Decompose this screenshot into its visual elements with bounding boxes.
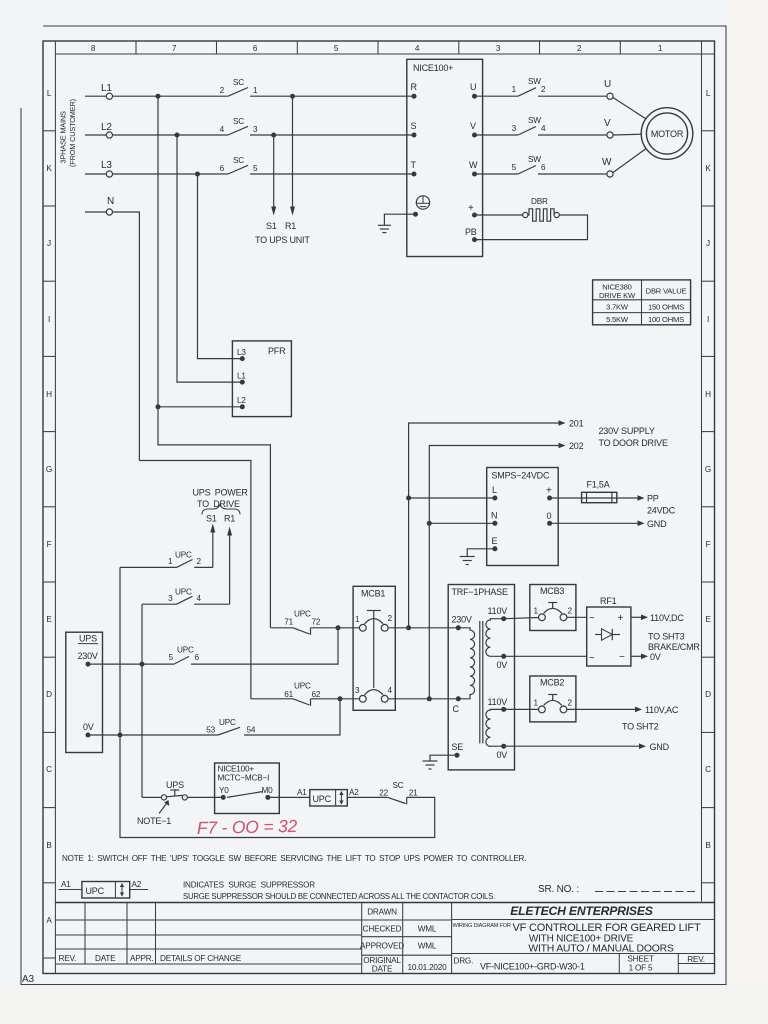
svg-text:RF1: RF1 (600, 596, 617, 606)
junction SMPS L (406, 496, 411, 501)
breaker MCB2 (530, 676, 576, 722)
junction L2-S1 drop (271, 133, 276, 138)
wire R1 drop to UPS unit (292, 96, 294, 208)
svg-text:+: + (618, 613, 624, 624)
svg-text:~: ~ (589, 653, 595, 664)
svg-text:5: 5 (253, 164, 258, 173)
svg-text:5.5KW: 5.5KW (606, 315, 629, 324)
svg-text:UPC: UPC (294, 682, 311, 691)
svg-text:D: D (705, 690, 711, 699)
wire 201 door drive supply (409, 423, 559, 498)
contact Y0-M0 (227, 792, 263, 798)
svg-text:A: A (46, 916, 52, 925)
svg-text:D: D (46, 690, 52, 699)
terminal L3 (106, 171, 112, 177)
wire L3 to contact SC5 (113, 173, 229, 175)
wire L3 drop to PFR L3 (198, 174, 243, 359)
svg-text:SC: SC (233, 117, 244, 126)
wire UPC3 drop to toggle (141, 604, 143, 797)
wire L3 stub (85, 173, 106, 175)
svg-text:4: 4 (415, 44, 420, 53)
svg-text:6: 6 (195, 653, 200, 662)
wire SE to ground (430, 755, 457, 761)
svg-text:TO SHT2: TO SHT2 (622, 722, 659, 732)
wire 202 door drive supply (429, 446, 558, 524)
wire SC21 return loop to 0V (120, 797, 435, 837)
svg-text:21: 21 (409, 789, 418, 798)
wire RF1 + output (631, 616, 641, 618)
terminal UPS 0V (86, 733, 91, 738)
svg-text:2: 2 (197, 557, 202, 566)
svg-text:54: 54 (247, 726, 256, 735)
wire SMPS 0 to GND (550, 522, 638, 524)
svg-text:230V: 230V (78, 651, 98, 661)
junction to SMPS L (406, 625, 411, 630)
contactor contact SW 5-6 (W) (512, 155, 546, 174)
svg-text:L3: L3 (101, 160, 112, 171)
svg-text:SC: SC (393, 781, 404, 790)
svg-text:U: U (604, 79, 611, 90)
revision table (55, 903, 361, 965)
contactor contact UPC 71-72 (270, 610, 320, 635)
wire W to contact SW5 (475, 173, 519, 175)
svg-text:NOTE 1: SWITCH OFF THE 'U: NOTE 1: SWITCH OFF THE 'UPS' TOGGLE SW B… (62, 854, 526, 863)
svg-text:NICE100+: NICE100+ (413, 63, 453, 73)
svg-text:K: K (46, 164, 52, 173)
contactor contact UPC 3-4 (142, 588, 230, 605)
svg-text:1 OF 5: 1 OF 5 (629, 964, 653, 973)
wire SW2 to motor U (538, 95, 607, 97)
svg-text:L: L (47, 89, 52, 98)
svg-text:R: R (411, 82, 418, 92)
svg-text:1: 1 (534, 699, 539, 708)
svg-text:ELETECH ENTERPRISES: ELETECH ENTERPRISES (510, 904, 653, 918)
svg-text:G: G (46, 465, 52, 474)
junction 230V line (140, 662, 145, 667)
svg-text:110V,DC: 110V,DC (650, 613, 684, 623)
svg-text:1: 1 (512, 85, 517, 94)
svg-text:S1: S1 (206, 514, 217, 524)
svg-text:3: 3 (355, 686, 360, 695)
wire MCB2-2 output (567, 708, 635, 710)
svg-text:L: L (492, 485, 497, 495)
svg-text:UPC: UPC (219, 718, 236, 727)
svg-text:UPC: UPC (86, 886, 105, 896)
wire + to DBR (475, 214, 523, 216)
svg-text:C: C (46, 765, 52, 774)
3-phase mains caption (59, 99, 78, 167)
svg-text:H: H (46, 390, 52, 399)
terminal L2 (106, 132, 112, 138)
svg-text:A2: A2 (349, 788, 359, 797)
rectifier RF1 (587, 596, 631, 666)
label 230V supply to door drive (599, 426, 668, 448)
drive unit NICE100+ (407, 59, 483, 256)
svg-text:I: I (48, 315, 50, 324)
svg-text:UPC: UPC (177, 646, 194, 655)
suppressor glyph (340, 792, 342, 805)
svg-text:UPC: UPC (294, 610, 311, 619)
svg-text:L2: L2 (237, 396, 246, 405)
svg-text:0V: 0V (497, 750, 508, 760)
svg-text:SC: SC (233, 156, 244, 165)
svg-text:71: 71 (284, 618, 293, 627)
svg-text:VF CONTROLLER FOR GEARED LIFT: VF CONTROLLER FOR GEARED LIFT (513, 922, 701, 934)
svg-text:7: 7 (172, 44, 177, 53)
right letter band line (701, 41, 703, 902)
svg-text:~: ~ (589, 613, 595, 624)
title block top edge (55, 902, 714, 904)
arrow NOTE-1 (159, 804, 167, 814)
node N (85, 196, 139, 461)
wire DBR return to PB (475, 215, 588, 240)
junction L1 drop at PFR L2 (156, 404, 161, 409)
wire PFR L2 feed (158, 406, 242, 408)
ground (drive) (378, 225, 391, 232)
wire drive earth to ground (384, 214, 415, 225)
svg-text:22: 22 (379, 789, 388, 798)
svg-text:C: C (453, 704, 460, 714)
wire MCB1-4 riser to SMPS N (428, 523, 430, 699)
svg-text:0V: 0V (497, 660, 508, 670)
wire RF1 - output (631, 655, 641, 657)
wire L1 stub (85, 95, 106, 97)
wire U to contact SW1 (475, 95, 519, 97)
svg-text:4: 4 (220, 125, 225, 134)
svg-text:UPC: UPC (175, 551, 192, 560)
wire L1 drop to PFR and step (158, 96, 270, 627)
svg-text:J: J (706, 239, 710, 248)
DBR value table (593, 280, 691, 325)
svg-text:SE: SE (452, 742, 464, 752)
wire 0V to RF1 (504, 655, 587, 657)
wire UPC6 to MCB1 feed (191, 628, 338, 664)
wire SMPS N feed (429, 522, 495, 524)
svg-text:5: 5 (334, 44, 339, 53)
svg-text:WIRING DIAGRAM FOR: WIRING DIAGRAM FOR (453, 923, 511, 929)
svg-text:WITH AUTO / MANUAL DOORS: WITH AUTO / MANUAL DOORS (528, 943, 674, 954)
wire SC1 to NICE R (250, 95, 414, 97)
svg-text:24VDC: 24VDC (647, 506, 676, 516)
svg-text:H: H (705, 390, 711, 399)
svg-text:+: + (546, 486, 552, 497)
right zone letters (705, 89, 711, 850)
svg-text:MCB3: MCB3 (540, 586, 564, 596)
wire SC3 to NICE S (250, 134, 414, 136)
top zone ticks (136, 41, 620, 54)
node S1 R1 to UPS unit (255, 221, 310, 245)
wire SMPS + to fuse (550, 497, 582, 499)
right zone ticks (702, 131, 715, 883)
protective earth symbol in drive (416, 196, 429, 209)
svg-text:L2: L2 (101, 122, 112, 133)
svg-text:NOTE−1: NOTE−1 (137, 816, 171, 826)
top zone numbers (91, 44, 663, 53)
node PP 24VDC (647, 494, 676, 516)
svg-text:DATE: DATE (95, 954, 116, 963)
ground (TRF SE) (423, 761, 438, 769)
svg-text:U: U (470, 82, 476, 92)
svg-text:L1: L1 (101, 83, 112, 94)
svg-text:2: 2 (541, 85, 546, 94)
svg-text:2: 2 (568, 607, 573, 616)
contactor contact SC 22-21 (379, 781, 418, 804)
svg-text:+: + (468, 203, 474, 214)
label TO SHT3 BRAKE/CMR (648, 632, 700, 653)
wire V to contact SW3 (475, 134, 519, 136)
svg-text:3.7KW: 3.7KW (606, 303, 629, 312)
wire UPC1 drop to 0V rail (119, 567, 121, 838)
svg-text:A2: A2 (132, 880, 142, 889)
svg-text:MCB1: MCB1 (361, 589, 385, 599)
svg-text:TO UPS UNIT: TO UPS UNIT (255, 235, 310, 245)
svg-text:NICE100+: NICE100+ (218, 765, 255, 774)
wire M0 to A1 (268, 796, 310, 798)
svg-text:DRG.: DRG. (454, 957, 474, 966)
svg-text:1: 1 (253, 86, 258, 95)
secondary winding 2 (486, 709, 504, 746)
svg-text:DRAWN: DRAWN (367, 908, 397, 917)
contactor contact UPC 61-62 (251, 682, 321, 706)
motor M1 (641, 108, 693, 160)
svg-text:A3: A3 (22, 974, 34, 985)
svg-text:3: 3 (512, 124, 517, 133)
wire S1 arrow from UPC2 (212, 531, 214, 567)
wire UPS 0V to UPC53 (88, 734, 218, 736)
wire motor U lead (613, 98, 646, 120)
svg-text:1: 1 (658, 44, 663, 53)
svg-text:201: 201 (569, 419, 584, 429)
svg-text:L1: L1 (237, 372, 246, 381)
node L3 (85, 156, 414, 177)
svg-text:WML: WML (418, 942, 437, 951)
wire L2 drop to PFR L1 (177, 135, 242, 382)
label UPS POWER TO DRIVE (193, 488, 249, 510)
svg-text:K: K (705, 164, 711, 173)
svg-text:4: 4 (541, 124, 546, 133)
svg-text:V: V (470, 121, 476, 131)
svg-text:110V,AC: 110V,AC (645, 705, 679, 715)
terminal N (106, 209, 112, 215)
wire UPC62 to MCB1-3 (311, 698, 360, 700)
svg-text:5: 5 (169, 653, 174, 662)
svg-text:4: 4 (197, 594, 202, 603)
svg-text:5: 5 (512, 163, 517, 172)
wire MCB1-2 riser to SMPS L (408, 498, 410, 628)
svg-text:TO SHT3: TO SHT3 (648, 632, 685, 642)
svg-text:MOTOR: MOTOR (651, 129, 684, 139)
svg-text:F: F (47, 540, 52, 549)
wire R1 arrow from UPC4 (229, 534, 231, 604)
svg-text:1: 1 (355, 615, 360, 624)
svg-text:SR. NO. :: SR. NO. : (538, 884, 579, 895)
wire S1 drop to UPS unit (273, 135, 275, 208)
svg-text:VF-NICE100+-GRD-W30-1: VF-NICE100+-GRD-W30-1 (480, 962, 585, 972)
contactor contact SW 3-4 (V) (512, 116, 546, 135)
wire UPS 230V to UPC5 (88, 663, 174, 665)
wire 0V to GND (504, 745, 639, 747)
contactor contact SC 6-5 (220, 156, 258, 174)
wire UPC54 to MCB1-3 feed (244, 699, 340, 735)
svg-text:SHEET: SHEET (627, 955, 653, 964)
svg-text:A1: A1 (61, 880, 71, 889)
svg-text:B: B (46, 841, 52, 850)
svg-text:6: 6 (220, 164, 225, 173)
svg-text:UPC: UPC (175, 588, 192, 597)
wire N step down (139, 461, 251, 699)
svg-text:DBR VALUE: DBR VALUE (646, 287, 687, 296)
junction UPC6/UPC72 (336, 625, 341, 630)
breaker MCB3 (530, 585, 576, 631)
node L1 (85, 78, 414, 99)
svg-text:DBR: DBR (531, 197, 548, 206)
svg-text:2: 2 (220, 86, 225, 95)
svg-text:T: T (411, 160, 417, 170)
svg-text:3: 3 (253, 125, 258, 134)
svg-text:J: J (47, 239, 51, 248)
svg-text:F1,5A: F1,5A (587, 480, 610, 490)
wire MCB1-2 to TRF 230V (388, 627, 458, 629)
surge suppressor UPC (A1-A2) (297, 788, 359, 806)
svg-text:N: N (491, 511, 497, 521)
junction 0V line (118, 733, 123, 738)
junction L3-PFR drop (195, 172, 200, 177)
wire N stub (85, 211, 106, 213)
wire SW4 to motor V (538, 134, 607, 136)
svg-text:110V: 110V (488, 606, 508, 616)
wire L1 to contact SC1 (113, 95, 229, 97)
svg-text:SW: SW (528, 155, 541, 164)
svg-text:0V: 0V (83, 722, 94, 732)
svg-text:(FROM CUSTOMER): (FROM CUSTOMER) (68, 99, 77, 167)
ground (SMPS E) (460, 557, 475, 565)
svg-text:2: 2 (568, 699, 573, 708)
wire motor W lead (613, 148, 646, 172)
contactor contact SC 2-1 (220, 78, 258, 96)
svg-text:C: C (705, 765, 711, 774)
junction L1-PFR drop (156, 94, 161, 99)
wire 110V to MCB3-1 (504, 618, 539, 619)
contactor contact UPC 53-54 (206, 718, 256, 735)
contactor contact UPC 5-6 (169, 646, 200, 665)
svg-text:E: E (46, 615, 52, 624)
svg-text:Y0: Y0 (219, 786, 229, 795)
svg-text:150 OHMS: 150 OHMS (648, 303, 684, 312)
svg-text:S: S (411, 121, 417, 131)
svg-text:TO DOOR DRIVE: TO DOOR DRIVE (599, 438, 668, 448)
svg-text:53: 53 (206, 726, 215, 735)
svg-text:WML: WML (418, 925, 437, 934)
secondary winding 1 (486, 619, 504, 657)
svg-text:0: 0 (547, 511, 552, 521)
svg-text:W: W (469, 160, 478, 170)
svg-text:G: G (705, 465, 711, 474)
approval column (362, 903, 452, 974)
svg-text:SMPS−24VDC: SMPS−24VDC (492, 471, 550, 481)
wire SC5 to NICE T (250, 173, 414, 175)
wire L2 stub (85, 134, 106, 136)
svg-text:3: 3 (168, 594, 173, 603)
title block (55, 903, 714, 974)
svg-text:W: W (602, 157, 612, 168)
MCB1 linkage (373, 611, 375, 689)
svg-text:CHECKED: CHECKED (363, 925, 402, 934)
wire MCB1-4 to TRF C (388, 698, 458, 700)
junction L1-R1 drop (290, 94, 295, 99)
svg-text:SURGE SUPPRESSOR SHOULD BE: SURGE SUPPRESSOR SHOULD BE CONNECTED ACR… (183, 892, 495, 901)
svg-text:APPROVED: APPROVED (360, 942, 404, 951)
wire A2 to SC contact (347, 796, 388, 798)
wire motor V lead (613, 133, 641, 136)
svg-text:L: L (706, 89, 711, 98)
svg-text:PB: PB (465, 227, 477, 237)
wire SMPS E to ground (467, 549, 495, 557)
svg-text:S1: S1 (266, 221, 277, 231)
power supply SMPS-24VDC (487, 468, 559, 566)
wire N to drop (113, 212, 140, 461)
junction to SMPS N (427, 696, 432, 701)
svg-text:UPS POWER: UPS POWER (193, 488, 249, 498)
svg-text:REV.: REV. (687, 955, 705, 964)
svg-text:PFR: PFR (268, 346, 286, 356)
svg-text:APPR.: APPR. (130, 954, 154, 963)
drawing frame (43, 41, 715, 974)
svg-text:GND: GND (647, 519, 667, 529)
svg-text:100 OHMS: 100 OHMS (648, 315, 684, 324)
svg-text:62: 62 (312, 690, 321, 699)
junction L2-PFR drop (175, 133, 180, 138)
svg-text:110V: 110V (488, 697, 508, 707)
svg-text:3: 3 (496, 44, 501, 53)
junction SMPS N (427, 521, 432, 526)
svg-text:DETAILS OF CHANGE: DETAILS OF CHANGE (160, 954, 242, 963)
svg-text:F: F (706, 540, 711, 549)
toggle blade and handle (167, 795, 183, 796)
toggle switch UPS (142, 780, 223, 800)
svg-text:F7 - OO = 32: F7 - OO = 32 (197, 816, 298, 838)
svg-text:0V: 0V (650, 652, 661, 662)
controller NICE100+ MCTC-MCB-I (215, 763, 280, 814)
wire fuse to PP (617, 497, 638, 499)
svg-text:202: 202 (569, 441, 584, 451)
node L2 (85, 117, 414, 138)
wire SMPS L feed (409, 497, 495, 499)
svg-text:TRF−1PHASE: TRF−1PHASE (452, 587, 508, 597)
core (479, 621, 481, 743)
resistor DBR (523, 197, 560, 221)
svg-text:R1: R1 (285, 221, 296, 231)
breaker MCB1 (353, 586, 395, 710)
diode D1 (595, 634, 602, 636)
contactor contact UPC 1-2 (120, 551, 213, 568)
svg-text:DRIVE KW: DRIVE KW (599, 291, 636, 300)
svg-text:MCTC−MCB−I: MCTC−MCB−I (218, 774, 270, 783)
terminal UPS 230V (86, 662, 91, 667)
wire L2 to contact SC3 (113, 134, 229, 136)
wire UPC72 to MCB1-1 (311, 627, 360, 629)
svg-text:GND: GND (650, 742, 670, 752)
svg-text:72: 72 (312, 618, 321, 627)
svg-text:L3: L3 (237, 348, 246, 357)
svg-text:3PHASE MAINS: 3PHASE MAINS (59, 111, 68, 163)
svg-text:1: 1 (168, 557, 173, 566)
top number band line (55, 53, 714, 55)
svg-text:E: E (492, 536, 498, 546)
svg-text:1: 1 (534, 607, 539, 616)
legend surge suppressor symbol (59, 880, 149, 898)
primary winding (458, 628, 474, 699)
svg-text:BRAKE/CMR: BRAKE/CMR (648, 642, 700, 652)
